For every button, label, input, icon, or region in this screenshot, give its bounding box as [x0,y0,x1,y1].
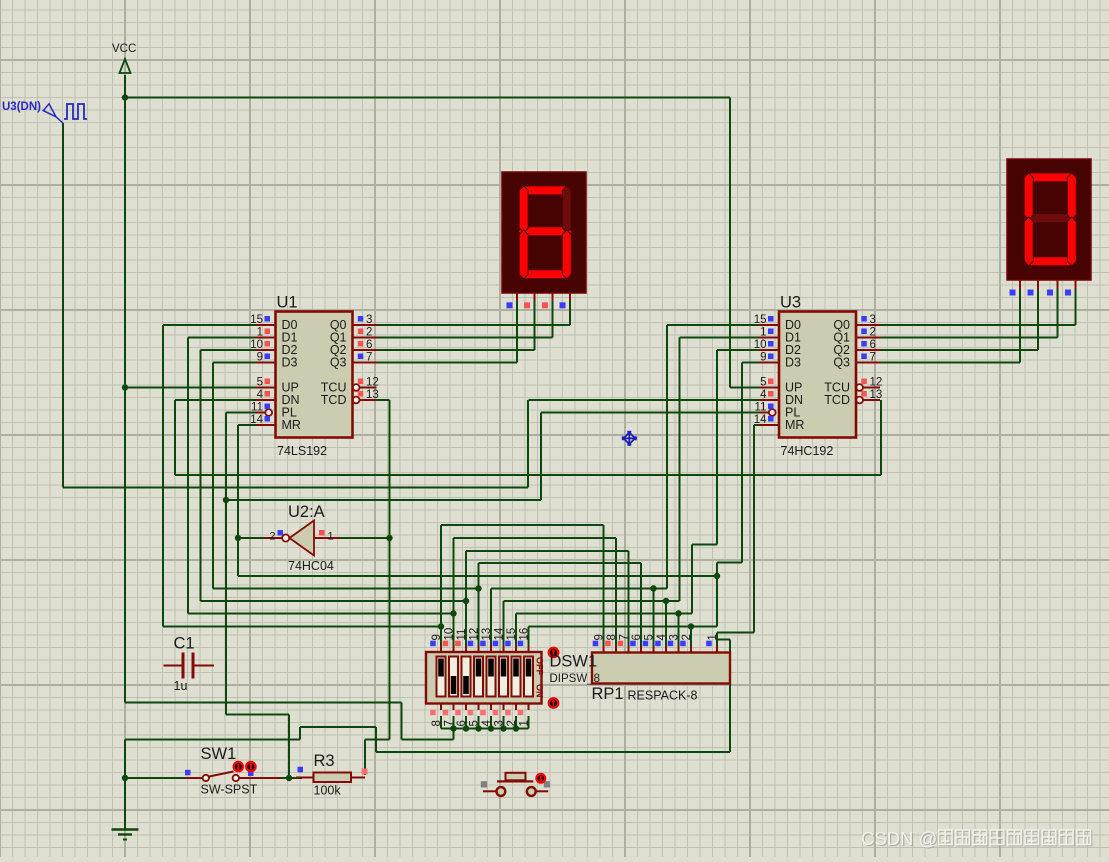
svg-text:14: 14 [250,414,263,426]
svg-text:9: 9 [593,634,605,640]
svg-text:2: 2 [506,720,518,726]
svg-text:4: 4 [481,720,493,727]
svg-text:U1: U1 [277,294,298,312]
svg-text:7: 7 [443,720,455,726]
svg-text:9: 9 [431,634,443,640]
svg-text:13: 13 [870,389,883,401]
svg-text:11: 11 [251,402,263,414]
svg-text:4: 4 [257,389,264,401]
svg-text:7: 7 [618,634,630,640]
svg-text:3: 3 [366,314,372,326]
svg-text:15: 15 [754,314,767,326]
svg-text:6: 6 [366,339,372,351]
svg-text:Q3: Q3 [833,356,850,370]
svg-text:4: 4 [656,634,668,641]
svg-text:16: 16 [518,628,530,641]
svg-text:10: 10 [754,339,767,351]
svg-text:DSW1: DSW1 [550,653,598,671]
svg-text:6: 6 [456,720,468,726]
svg-text:SW-SPST: SW-SPST [201,783,258,797]
svg-text:5: 5 [468,720,480,726]
svg-text:TCD: TCD [321,393,347,407]
svg-text:2: 2 [681,634,693,640]
svg-text:1: 1 [328,531,334,543]
svg-text:1: 1 [707,634,719,640]
svg-text:5: 5 [257,377,263,389]
svg-text:100k: 100k [314,784,342,798]
svg-text:2: 2 [366,327,372,339]
svg-text:14: 14 [493,627,505,640]
svg-text:13: 13 [481,628,493,641]
svg-text:7: 7 [870,352,876,364]
svg-text:U3(DN): U3(DN) [2,101,41,113]
svg-text:9: 9 [760,352,766,364]
svg-text:RP1: RP1 [592,685,624,703]
svg-text:3: 3 [668,634,680,640]
svg-text:SW1: SW1 [201,745,237,763]
svg-text:9: 9 [257,352,263,364]
svg-text:74LS192: 74LS192 [277,444,327,458]
svg-text:1: 1 [518,720,530,726]
svg-text:2: 2 [269,531,275,543]
svg-text:11: 11 [755,402,767,414]
svg-text:8: 8 [431,720,443,726]
svg-text:3: 3 [493,720,505,726]
svg-text:RESPACK-8: RESPACK-8 [628,689,698,703]
svg-text:D3: D3 [785,356,801,370]
svg-text:12: 12 [870,377,883,389]
svg-text:MR: MR [785,418,804,432]
svg-text:MR: MR [282,418,301,432]
svg-text:TCD: TCD [824,393,850,407]
svg-text:14: 14 [754,414,767,426]
svg-text:12: 12 [366,377,379,389]
svg-text:15: 15 [250,314,263,326]
svg-text:12: 12 [468,628,480,641]
svg-text:5: 5 [643,634,655,640]
svg-text:2: 2 [870,327,876,339]
svg-text:74HC192: 74HC192 [781,444,834,458]
svg-text:C1: C1 [174,635,195,653]
svg-text:6: 6 [631,634,643,640]
svg-text:3: 3 [870,314,876,326]
svg-text:ON: ON [535,684,545,698]
svg-text:15: 15 [506,628,518,641]
svg-text:1: 1 [257,327,263,339]
svg-text:1u: 1u [174,679,188,693]
svg-text:DIPSW_8: DIPSW_8 [550,673,601,685]
svg-text:U2:A: U2:A [288,503,325,521]
svg-text:10: 10 [250,339,263,351]
svg-text:1: 1 [760,327,766,339]
svg-text:5: 5 [760,377,766,389]
svg-text:13: 13 [366,389,379,401]
svg-text:OFF: OFF [535,657,545,675]
svg-text:D3: D3 [282,356,298,370]
svg-text:U3: U3 [780,294,801,312]
svg-text:8: 8 [606,634,618,640]
svg-text:4: 4 [760,389,767,401]
svg-text:Q3: Q3 [330,356,347,370]
svg-text:CSDN @: CSDN @ [861,828,937,849]
svg-text:11: 11 [456,629,468,641]
svg-text:7: 7 [366,352,372,364]
svg-text:6: 6 [870,339,876,351]
svg-text:VCC: VCC [112,43,136,55]
svg-text:74HC04: 74HC04 [288,559,334,573]
svg-text:10: 10 [443,628,455,641]
svg-text:R3: R3 [314,752,335,770]
